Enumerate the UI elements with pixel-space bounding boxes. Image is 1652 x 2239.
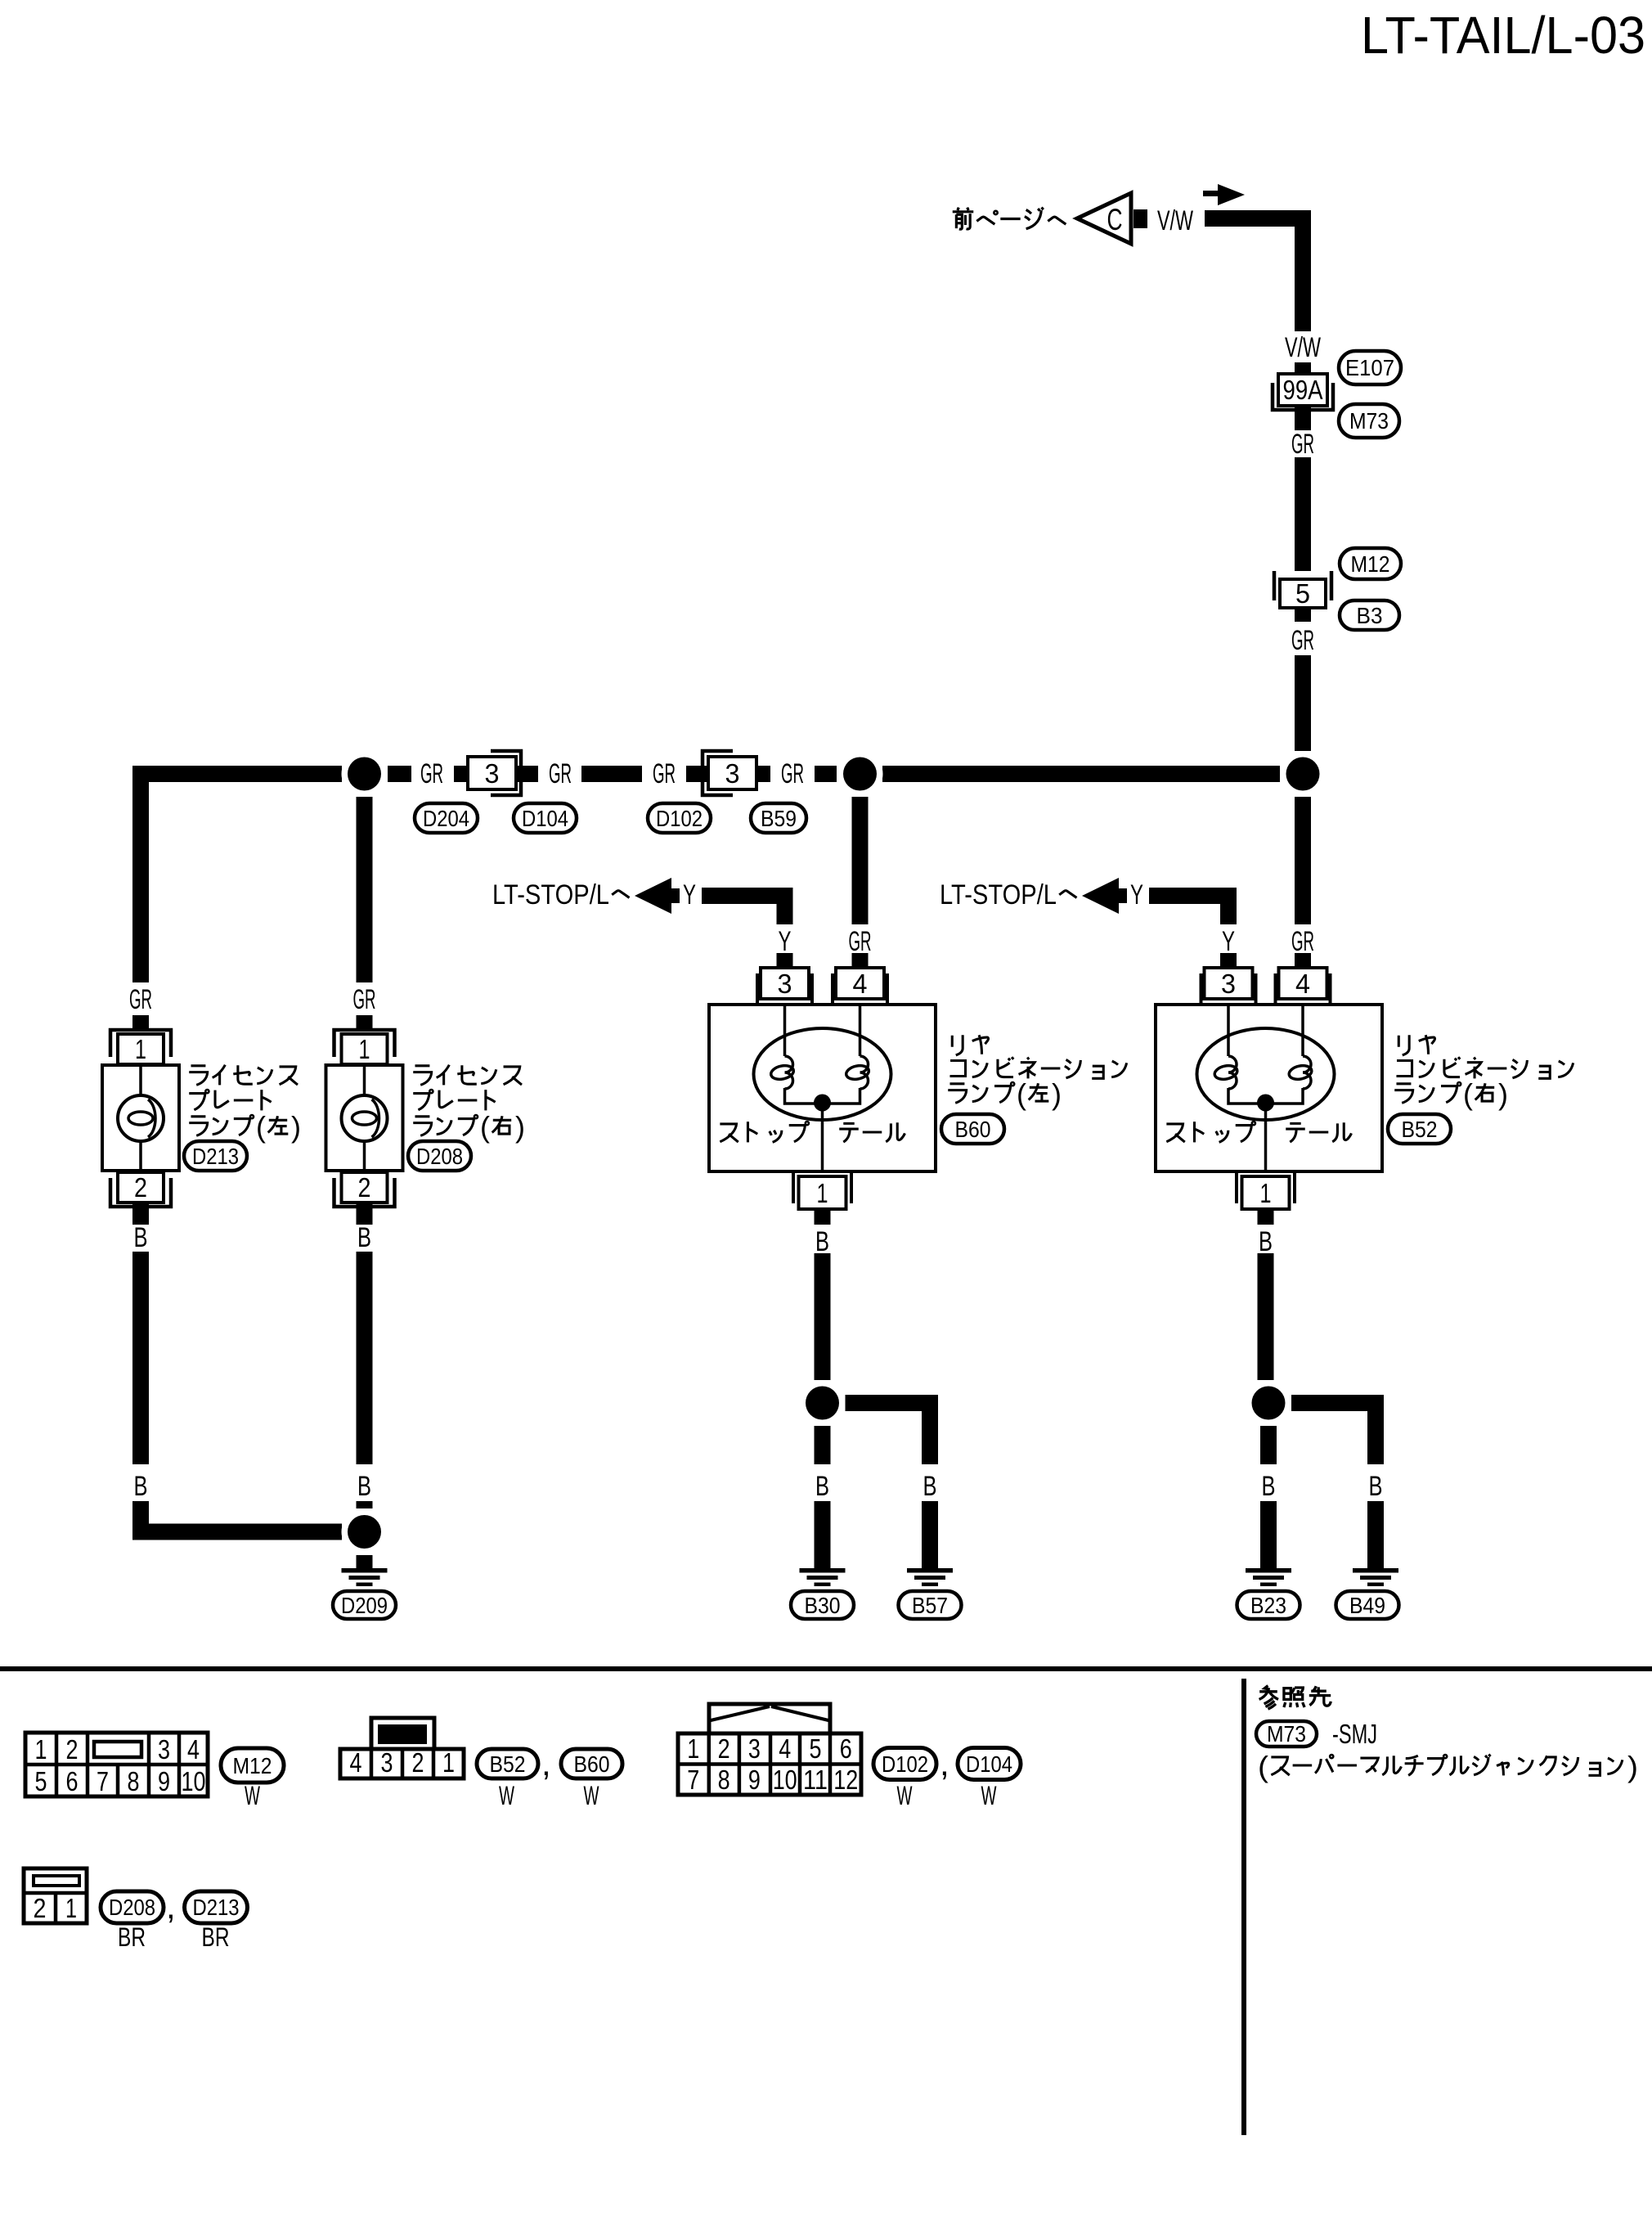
- svg-text:W: W: [499, 1781, 515, 1810]
- svg-text:5: 5: [810, 1733, 822, 1764]
- svg-text:2: 2: [718, 1733, 730, 1764]
- svg-text:GR: GR: [1291, 625, 1314, 656]
- svg-text:B60: B60: [955, 1117, 991, 1142]
- svg-text:B60: B60: [574, 1751, 610, 1777]
- svg-text:3: 3: [1221, 969, 1236, 999]
- svg-text:BR: BR: [118, 1922, 146, 1952]
- svg-text:M73: M73: [1349, 408, 1389, 434]
- svg-text:D209: D209: [341, 1593, 388, 1618]
- svg-text:(: (: [1463, 1077, 1473, 1111]
- svg-text:4: 4: [350, 1747, 362, 1778]
- svg-text:,: ,: [940, 1744, 949, 1783]
- svg-text:GR: GR: [353, 984, 376, 1015]
- svg-text:B49: B49: [1349, 1593, 1385, 1618]
- svg-text:B: B: [357, 1222, 371, 1253]
- svg-text:GR: GR: [849, 926, 872, 957]
- svg-text:E107: E107: [1345, 355, 1394, 380]
- svg-text:1: 1: [817, 1178, 828, 1208]
- svg-text:B: B: [1262, 1471, 1276, 1502]
- svg-text:10: 10: [773, 1765, 797, 1795]
- svg-text:LT-STOP/L: LT-STOP/L: [492, 879, 609, 910]
- svg-text:9: 9: [158, 1766, 170, 1796]
- svg-text:B: B: [1369, 1471, 1383, 1502]
- svg-text:(: (: [480, 1110, 490, 1144]
- svg-text:GR: GR: [129, 984, 152, 1015]
- svg-text:3: 3: [485, 758, 500, 789]
- svg-text:GR: GR: [420, 758, 443, 789]
- svg-text:1: 1: [1260, 1178, 1272, 1208]
- svg-text:W: W: [245, 1781, 261, 1810]
- svg-text:1: 1: [359, 1034, 370, 1064]
- svg-text:LT-STOP/L: LT-STOP/L: [940, 879, 1057, 910]
- svg-text:D104: D104: [522, 806, 568, 831]
- svg-text:): ): [1498, 1077, 1508, 1111]
- svg-text:7: 7: [97, 1766, 109, 1796]
- svg-text:M12: M12: [1351, 551, 1390, 577]
- svg-text:GR: GR: [1291, 926, 1314, 957]
- svg-text:C: C: [1107, 203, 1123, 236]
- svg-text:D204: D204: [423, 806, 469, 831]
- svg-text:D213: D213: [192, 1144, 239, 1169]
- svg-text:(: (: [256, 1110, 266, 1144]
- svg-text:W: W: [897, 1781, 914, 1810]
- svg-text:5: 5: [35, 1766, 47, 1796]
- svg-text:B: B: [134, 1471, 148, 1502]
- svg-text:3: 3: [158, 1734, 170, 1765]
- svg-text:2: 2: [412, 1747, 424, 1778]
- svg-text:D213: D213: [193, 1895, 240, 1920]
- svg-text:8: 8: [128, 1766, 140, 1796]
- svg-text:-SMJ: -SMJ: [1332, 1719, 1377, 1749]
- svg-text:(: (: [1017, 1077, 1026, 1111]
- svg-text:W: W: [584, 1781, 600, 1810]
- svg-text:): ): [1627, 1750, 1638, 1783]
- svg-text:B23: B23: [1250, 1593, 1286, 1618]
- svg-text:1: 1: [442, 1747, 455, 1778]
- svg-text:): ): [1052, 1077, 1062, 1111]
- svg-text:10: 10: [182, 1766, 206, 1796]
- svg-text:D208: D208: [416, 1144, 463, 1169]
- svg-text:D208: D208: [109, 1895, 155, 1920]
- svg-text:12: 12: [833, 1765, 858, 1795]
- svg-text:GR: GR: [1291, 429, 1314, 460]
- svg-text:B59: B59: [761, 806, 797, 831]
- svg-text:B30: B30: [805, 1593, 841, 1618]
- svg-text:9: 9: [748, 1765, 761, 1795]
- svg-text:Y: Y: [1130, 879, 1143, 910]
- svg-text:B: B: [923, 1471, 937, 1502]
- svg-text:): ): [291, 1110, 301, 1144]
- svg-text:B: B: [134, 1222, 148, 1253]
- svg-text:4: 4: [779, 1733, 791, 1764]
- svg-text:6: 6: [840, 1733, 852, 1764]
- svg-text:1: 1: [65, 1893, 77, 1923]
- svg-text:Y: Y: [779, 926, 792, 957]
- svg-text:D102: D102: [882, 1751, 928, 1777]
- svg-text:3: 3: [725, 758, 740, 789]
- svg-text:LT-TAIL/L-03: LT-TAIL/L-03: [1361, 6, 1645, 65]
- svg-text:2: 2: [134, 1172, 147, 1203]
- svg-text:B57: B57: [912, 1593, 948, 1618]
- svg-text:GR: GR: [549, 758, 572, 789]
- svg-text:2: 2: [66, 1734, 79, 1765]
- svg-text:GR: GR: [653, 758, 676, 789]
- svg-text:4: 4: [187, 1734, 200, 1765]
- svg-text:B52: B52: [490, 1751, 526, 1777]
- svg-text:1: 1: [687, 1733, 699, 1764]
- svg-text:B: B: [1259, 1226, 1273, 1257]
- svg-text:6: 6: [66, 1766, 79, 1796]
- svg-text:4: 4: [853, 969, 868, 999]
- svg-text:BR: BR: [202, 1922, 230, 1952]
- svg-text:,: ,: [541, 1744, 551, 1783]
- svg-text:D102: D102: [656, 806, 703, 831]
- svg-text:M12: M12: [233, 1753, 272, 1778]
- svg-text:B: B: [815, 1471, 829, 1502]
- svg-text:): ): [515, 1110, 525, 1144]
- svg-text:3: 3: [778, 969, 792, 999]
- svg-text:11: 11: [803, 1765, 828, 1795]
- svg-text:7: 7: [687, 1765, 699, 1795]
- svg-text:B3: B3: [1357, 603, 1383, 628]
- svg-text:Y: Y: [683, 879, 696, 910]
- svg-text:2: 2: [358, 1172, 371, 1203]
- svg-text:1: 1: [35, 1734, 47, 1765]
- svg-text:B52: B52: [1402, 1117, 1438, 1142]
- svg-text:V/W: V/W: [1157, 205, 1193, 236]
- svg-text:2: 2: [34, 1893, 47, 1923]
- svg-text:B: B: [815, 1226, 829, 1257]
- svg-text:4: 4: [1295, 969, 1310, 999]
- svg-text:,: ,: [166, 1887, 176, 1926]
- svg-text:GR: GR: [781, 758, 804, 789]
- svg-text:V/W: V/W: [1285, 332, 1321, 363]
- svg-text:B: B: [357, 1471, 371, 1502]
- svg-text:(: (: [1258, 1750, 1268, 1783]
- svg-text:W: W: [981, 1781, 998, 1810]
- svg-text:3: 3: [381, 1747, 393, 1778]
- svg-text:8: 8: [718, 1765, 730, 1795]
- svg-text:99A: 99A: [1283, 375, 1323, 405]
- svg-text:Y: Y: [1222, 926, 1235, 957]
- svg-text:M73: M73: [1267, 1721, 1306, 1747]
- svg-text:1: 1: [135, 1034, 146, 1064]
- svg-text:3: 3: [748, 1733, 761, 1764]
- svg-text:D104: D104: [966, 1751, 1012, 1777]
- svg-text:5: 5: [1295, 578, 1310, 609]
